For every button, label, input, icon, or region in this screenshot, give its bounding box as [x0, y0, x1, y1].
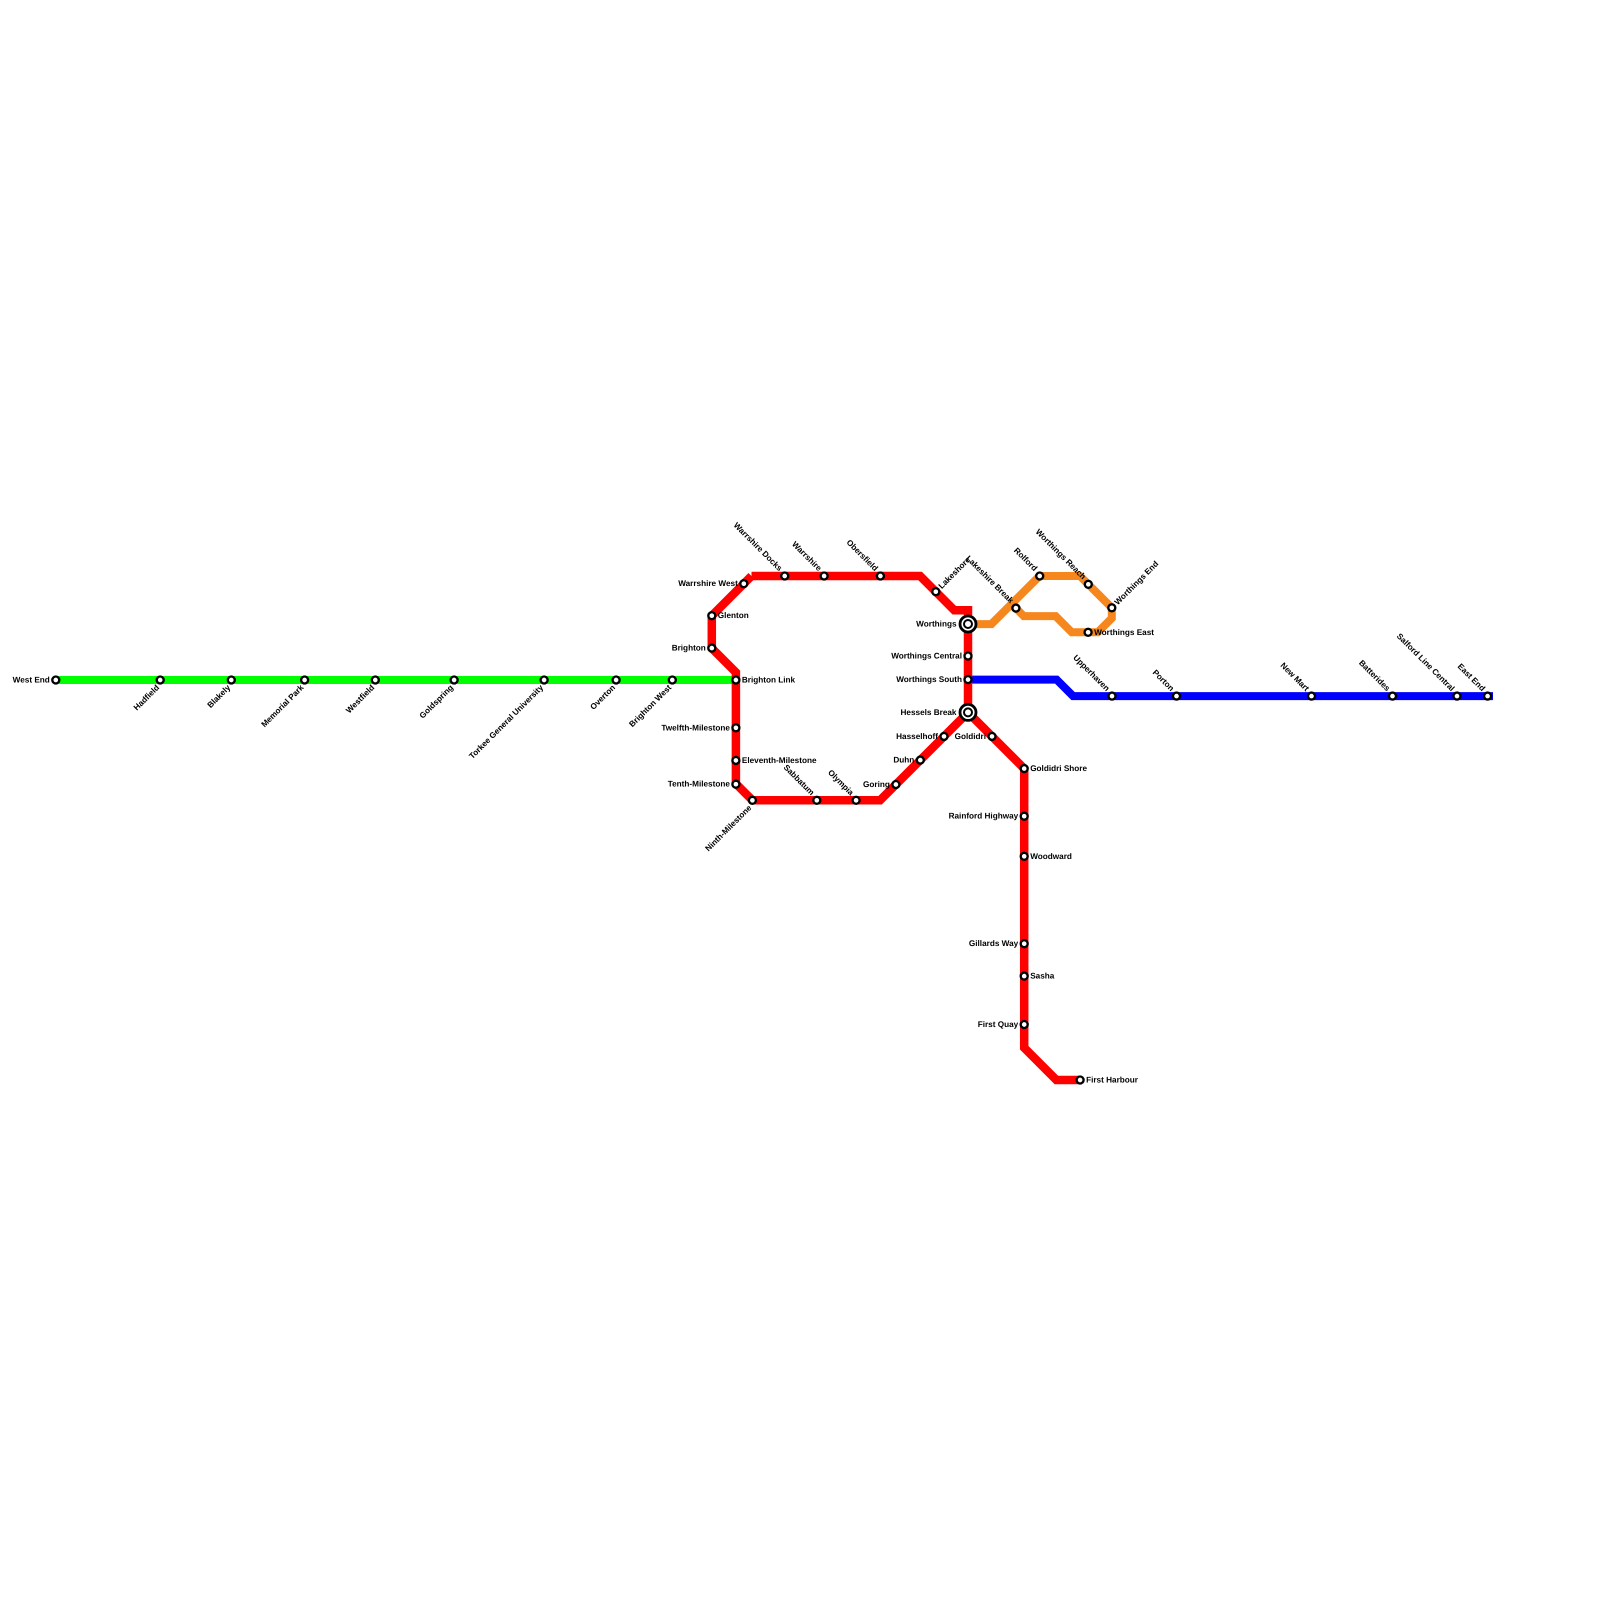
- green line West End - Brighton Link: [56, 676, 736, 684]
- red branch Hessels Break - First Harbour: [968, 712, 1080, 1080]
- svg-text:Tenth-Milestone: Tenth-Milestone: [668, 780, 731, 789]
- station Hasselhoff: [896, 732, 947, 741]
- station Goldspring: [418, 677, 458, 721]
- station Woodward: [1021, 852, 1072, 861]
- blue line Worthings South - East End: [968, 680, 1493, 697]
- svg-text:Worthings: Worthings: [916, 620, 957, 629]
- station Warrshire West: [678, 579, 747, 588]
- station Sasha: [1021, 972, 1055, 981]
- orange loop Worthings - Rolford - Worthings East: [968, 576, 1112, 632]
- station Glenton: [708, 611, 748, 620]
- station Blakely: [206, 677, 235, 710]
- svg-text:Goldidri Shore: Goldidri Shore: [1030, 764, 1087, 773]
- station Torkee General University: [467, 677, 547, 761]
- station Eleventh-Milestone: [732, 756, 817, 765]
- interchange Worthings: [916, 616, 976, 632]
- station Warrshire: [790, 540, 827, 580]
- svg-text:Worthings East: Worthings East: [1094, 628, 1154, 637]
- svg-text:Worthings South: Worthings South: [896, 675, 962, 684]
- station Rainford Highway: [949, 812, 1028, 821]
- station Obersfield: [845, 538, 884, 580]
- station First Harbour: [1077, 1076, 1139, 1085]
- station Lakeshore: [932, 555, 972, 595]
- station Rolford: [1012, 546, 1043, 579]
- station Olympia: [826, 768, 859, 804]
- station Overton: [589, 677, 620, 712]
- svg-text:Brighton Link: Brighton Link: [742, 676, 796, 685]
- svg-text:Rainford Highway: Rainford Highway: [949, 812, 1019, 821]
- station Memorial Park: [260, 677, 308, 730]
- svg-text:Twelfth-Milestone: Twelfth-Milestone: [661, 723, 730, 732]
- station Warrshire Docks: [732, 521, 788, 580]
- station Goldidri Shore: [1021, 764, 1088, 773]
- station Worthings South: [896, 675, 971, 684]
- svg-text:Worthings Central: Worthings Central: [891, 652, 962, 661]
- svg-text:Eleventh-Milestone: Eleventh-Milestone: [742, 756, 817, 765]
- station First Quay: [978, 1020, 1028, 1029]
- station Lakeshire Break: [964, 554, 1019, 612]
- svg-text:Goring: Goring: [863, 780, 890, 789]
- station Twelfth-Milestone: [661, 723, 739, 732]
- station Worthings Central: [891, 652, 971, 661]
- svg-text:First Harbour: First Harbour: [1086, 1076, 1139, 1085]
- station East End: [1456, 662, 1491, 700]
- station Upperhaven: [1071, 653, 1115, 699]
- station Westfield: [344, 677, 379, 716]
- station Gillards Way: [969, 939, 1028, 948]
- station Worthings East: [1085, 628, 1155, 637]
- svg-text:Sasha: Sasha: [1030, 972, 1055, 981]
- svg-text:Woodward: Woodward: [1030, 852, 1072, 861]
- station Batterides: [1357, 658, 1396, 699]
- station Duhn: [893, 756, 923, 765]
- svg-text:Goldidri: Goldidri: [955, 732, 986, 741]
- svg-text:Hessels Break: Hessels Break: [901, 708, 957, 717]
- svg-text:West End: West End: [13, 676, 50, 685]
- station Goring: [863, 780, 899, 789]
- interchange Hessels Break: [901, 704, 977, 720]
- station Tenth-Milestone: [668, 780, 740, 789]
- svg-text:Warrshire West: Warrshire West: [678, 579, 738, 588]
- station Sabbatum: [782, 763, 821, 804]
- svg-text:Hasselhoff: Hasselhoff: [896, 732, 938, 741]
- station Goldidri: [955, 732, 996, 741]
- svg-text:First Quay: First Quay: [978, 1020, 1019, 1029]
- station New Mart: [1279, 661, 1315, 700]
- svg-text:Gillards Way: Gillards Way: [969, 939, 1019, 948]
- station West End: [13, 676, 60, 685]
- station Brighton West: [627, 677, 675, 729]
- station Brighton: [672, 644, 716, 653]
- station Worthings End: [1108, 559, 1160, 611]
- station Salford Line Central: [1395, 632, 1461, 700]
- station Worthings Reach: [1034, 527, 1092, 587]
- station Ninth-Milestone: [704, 797, 756, 853]
- svg-text:Duhn: Duhn: [893, 756, 914, 765]
- station Porton: [1151, 668, 1180, 700]
- svg-text:Glenton: Glenton: [718, 611, 749, 620]
- svg-text:Brighton: Brighton: [672, 644, 706, 653]
- station Brighton Link: [732, 676, 795, 685]
- red loop line: [712, 576, 968, 800]
- station Hadfield: [132, 677, 164, 713]
